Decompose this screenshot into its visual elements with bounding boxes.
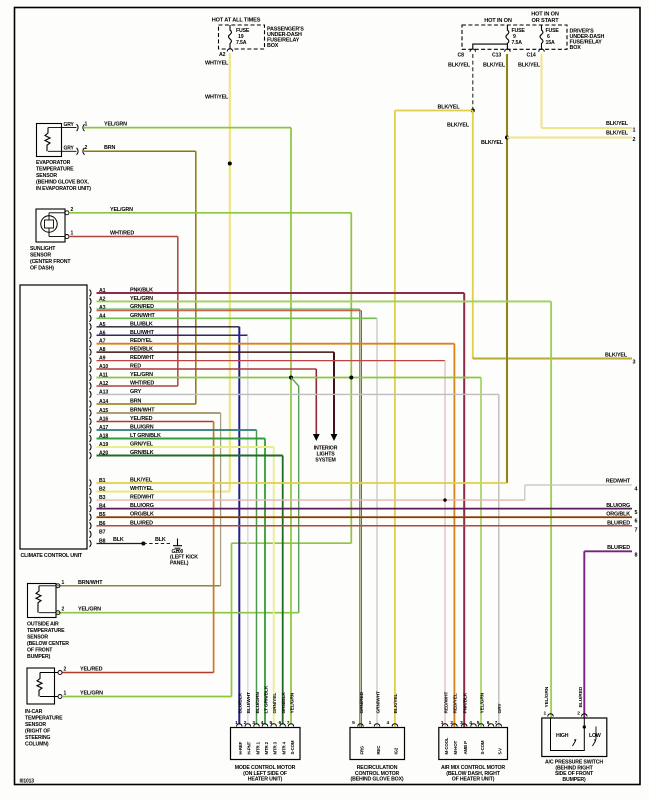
svg-text:MTR 3: MTR 3 (273, 741, 278, 754)
svg-text:PNK/BLK: PNK/BLK (130, 288, 153, 294)
svg-text:4: 4 (261, 720, 264, 726)
mode motor pin 6 GRN/BLK (279, 692, 288, 755)
unit pin B7 (90, 529, 106, 537)
unit pin A18 (90, 434, 109, 442)
unit pin B3 (90, 495, 106, 503)
svg-text:SENSOR: SENSOR (25, 722, 46, 728)
wire BLK/YEL from C8 junction left and down to recirculation motor (395, 105, 473, 728)
recirc motor pin 5 GRN/RED (352, 691, 365, 754)
wire B4 BLU/ORG to terminal 5 (97, 503, 638, 516)
svg-text:5-V: 5-V (498, 748, 503, 755)
svg-text:OUTSIDE AIR: OUTSIDE AIR (27, 622, 59, 628)
wire A7 RED/YEL to air mix motor pin 2 (97, 338, 455, 727)
svg-text:REC: REC (376, 745, 381, 755)
wire YEL/GRN evap pin1 down to mode motor S-COM with junction on A11 (84, 122, 291, 725)
mode motor pin 2 BLU/WHT (244, 692, 253, 755)
mode control motor connector (231, 728, 301, 783)
wire A20 GRN/BLK to mode motor pin 6 (97, 450, 283, 725)
evap sensor pin 1 connector (64, 122, 88, 132)
air mix motor pin 7 (495, 703, 504, 755)
svg-text:1: 1 (85, 122, 88, 128)
svg-text:H-REF: H-REF (238, 741, 243, 754)
unit pin A19 (90, 442, 109, 450)
climate control unit (20, 285, 87, 559)
svg-text:1: 1 (369, 720, 372, 726)
wire A2 YEL/GRN to A/C pressure switch pin 1 (97, 296, 552, 718)
wire A9 RED/WHT to air mix motor pin 1 (97, 355, 446, 727)
svg-text:MTR 1: MTR 1 (255, 741, 260, 754)
unit pin A16 (90, 417, 109, 425)
svg-text:RED/YEL: RED/YEL (130, 338, 153, 344)
svg-text:BLU/GRN: BLU/GRN (130, 425, 154, 431)
svg-text:5: 5 (477, 720, 480, 726)
wire A3 GRN/RED to recirculation motor (97, 304, 362, 727)
svg-text:WHT/RED: WHT/RED (110, 231, 134, 237)
svg-text:A12: A12 (99, 381, 108, 387)
svg-text:GRY: GRY (130, 389, 142, 395)
svg-text:BLK: BLK (155, 537, 166, 543)
svg-text:RED: RED (130, 364, 141, 370)
svg-text:(BEHIND GLOVE BOX,: (BEHIND GLOVE BOX, (36, 180, 89, 186)
svg-text:BLK/YEL: BLK/YEL (481, 140, 504, 146)
svg-text:IN-CAR: IN-CAR (25, 709, 43, 715)
svg-text:1: 1 (544, 711, 547, 717)
wire B5 ORG/BLK to terminal 6 (97, 512, 638, 525)
svg-text:B7: B7 (99, 529, 106, 535)
svg-text:BLK/YEL: BLK/YEL (438, 105, 461, 111)
svg-text:BUMPER): BUMPER) (562, 777, 586, 783)
svg-text:ORG/BLK: ORG/BLK (130, 512, 154, 518)
svg-text:WHT/YEL: WHT/YEL (205, 95, 229, 101)
air mix motor pin 4 (469, 720, 476, 727)
svg-text:BUMPER): BUMPER) (27, 654, 51, 660)
outside sensor pin 2 (56, 607, 101, 615)
wire YEL/GRN sunlight pin2 down to junction on A11 then to in-car sensor pin1 (63, 207, 351, 697)
passenger under-dash fuse/relay box (212, 18, 305, 50)
svg-text:BLK/YEL: BLK/YEL (448, 63, 471, 69)
unit pin A3 (90, 305, 106, 313)
svg-text:BRN: BRN (104, 145, 115, 151)
svg-text:BRN: BRN (130, 399, 141, 405)
svg-text:BRN/WHT: BRN/WHT (78, 580, 103, 586)
svg-text:3: 3 (460, 720, 463, 726)
svg-text:YEL/GRN: YEL/GRN (130, 372, 153, 378)
wire B3 RED/WHT to terminal 4 (97, 479, 638, 501)
svg-text:C14: C14 (527, 53, 536, 59)
svg-text:8: 8 (635, 553, 638, 559)
svg-text:YEL/GRN: YEL/GRN (544, 686, 550, 707)
evap sensor pin 2 connector (64, 145, 88, 155)
svg-text:BLK/YEL: BLK/YEL (130, 478, 153, 484)
unit pin A11 (90, 373, 109, 381)
svg-text:BLU/RED: BLU/RED (578, 686, 584, 707)
svg-text:C13: C13 (492, 53, 501, 59)
svg-text:2: 2 (85, 145, 88, 151)
outside air temperature sensor (27, 584, 69, 661)
pin C8 (458, 49, 476, 59)
svg-text:GRN/WHT: GRN/WHT (130, 313, 156, 319)
A/C pressure switch (542, 718, 607, 783)
svg-text:SYSTEM: SYSTEM (315, 458, 335, 464)
svg-text:6: 6 (487, 720, 490, 726)
svg-text:YEL/RED: YEL/RED (80, 667, 103, 673)
junction dot inside A/C switch (583, 725, 586, 728)
svg-text:HOT AT ALL TIMES: HOT AT ALL TIMES (212, 18, 261, 24)
wire B6 BLU/RED to terminal 7 (97, 520, 638, 533)
svg-text:3: 3 (252, 720, 255, 726)
wire B1 BLK/YEL from fuse 9 via C13 (97, 478, 508, 484)
svg-text:HEATER UNIT): HEATER UNIT) (248, 777, 283, 783)
unit pin B2 (90, 487, 106, 495)
svg-text:15A: 15A (546, 40, 555, 46)
wire A17 BLU/GRN to mode motor pin 3 (97, 425, 257, 725)
svg-text:S-COM: S-COM (480, 740, 485, 754)
svg-text:A2: A2 (219, 52, 226, 58)
svg-text:3: 3 (633, 360, 636, 366)
svg-text:RED/WHT: RED/WHT (130, 355, 155, 361)
wire A13 GRY to air mix motor pin 7 (97, 389, 499, 728)
svg-text:WHT/YEL: WHT/YEL (130, 486, 154, 492)
svg-text:1: 1 (64, 691, 67, 697)
svg-text:YEL/GRN: YEL/GRN (289, 692, 295, 713)
A/C switch pin 1 YEL/GRN (544, 686, 554, 716)
svg-text:7.5A: 7.5A (236, 40, 247, 46)
unit pin A1 (90, 288, 106, 296)
wire BLK/YEL dashed from pin C8 (472, 54, 474, 111)
mode motor pin 3 BLU/GRN (252, 692, 260, 755)
svg-text:BLU/WHT: BLU/WHT (246, 692, 252, 714)
jog from A11 junction to outside air sensor riser (291, 378, 299, 613)
wire WHT/RED sunlight pin1 to unit pin A12 (69, 231, 178, 386)
svg-text:GRN/WHT: GRN/WHT (375, 691, 381, 713)
svg-text:YEL/GRN: YEL/GRN (479, 692, 485, 713)
pin C13 (492, 49, 510, 59)
wire A5 BLU/BLK to mode motor pin 1 (97, 321, 240, 724)
wire A1 PNK/BLK to air mix motor pin 3 (97, 288, 465, 728)
svg-text:H-PNT: H-PNT (247, 741, 252, 754)
svg-text:BLU/BLK: BLU/BLK (238, 692, 244, 713)
svg-text:5: 5 (270, 720, 273, 726)
wire B8 BLK to ground G200 (97, 537, 144, 544)
svg-text:GRN/BLK: GRN/BLK (130, 450, 154, 456)
unit pin A7 (90, 339, 106, 347)
svg-text:GRN/BLK: GRN/BLK (281, 692, 287, 714)
svg-text:WHT/YEL: WHT/YEL (205, 61, 229, 67)
air mix motor pin 1 (441, 692, 450, 755)
wire A10 RED to interior lights system arrow (97, 364, 317, 434)
interior lights system label (314, 446, 338, 464)
wire BRN evap pin2 to unit pin A14 (84, 145, 196, 404)
svg-text:BOX: BOX (267, 43, 279, 49)
mode motor pin 1 BLU/BLK (235, 692, 244, 754)
unit pin B6 (90, 521, 106, 529)
svg-text:HIGH: HIGH (556, 733, 569, 739)
fuse 6 15A (540, 25, 559, 49)
svg-text:BLK/YEL: BLK/YEL (483, 63, 506, 69)
unit pin B5 (90, 512, 106, 520)
svg-text:YEL/GRN: YEL/GRN (110, 207, 133, 213)
A/C switch pin 2 BLU/RED (577, 686, 587, 716)
svg-text:S-COM: S-COM (290, 740, 295, 754)
wire A6 BLU/WHT to mode motor pin 2 (97, 330, 248, 725)
svg-text:2: 2 (577, 711, 580, 717)
svg-text:BLU/WHT: BLU/WHT (130, 330, 155, 336)
unit pin A20 (90, 451, 109, 459)
ground G200 (left kick panel) (170, 539, 198, 567)
unit pin A9 (90, 356, 106, 364)
svg-text:SENSOR: SENSOR (27, 635, 48, 641)
wire A19 GRN/YEL to mode motor pin 5 (97, 442, 274, 725)
recirculation control motor connector (350, 728, 405, 783)
wire A8 RED/BLK to interior lights system arrow (97, 347, 335, 434)
svg-text:BLK/YEL: BLK/YEL (447, 123, 470, 129)
wire BLK/YEL from C13 junction to terminal 2 (507, 131, 636, 144)
svg-text:SENSOR: SENSOR (30, 253, 51, 259)
air mix motor pin 6 (487, 720, 494, 727)
svg-text:M-COOL: M-COOL (444, 737, 449, 754)
svg-text:GRN/YEL: GRN/YEL (130, 442, 154, 448)
svg-text:MTR 2: MTR 2 (264, 741, 269, 754)
svg-text:5: 5 (352, 720, 355, 726)
svg-text:WHT/RED: WHT/RED (130, 380, 154, 386)
svg-text:2: 2 (244, 720, 247, 726)
svg-text:4: 4 (469, 720, 472, 726)
svg-text:(RIGHT OF: (RIGHT OF (25, 729, 50, 735)
svg-text:SENSOR: SENSOR (36, 173, 57, 179)
svg-text:1: 1 (62, 580, 65, 586)
svg-text:4: 4 (635, 487, 638, 493)
svg-text:AMB P: AMB P (463, 741, 468, 755)
svg-text:6: 6 (635, 519, 638, 525)
svg-text:BRN/WHT: BRN/WHT (130, 408, 155, 414)
svg-text:RED/WHT: RED/WHT (130, 495, 155, 501)
svg-text:7: 7 (287, 720, 290, 726)
air mix motor pin 3 (460, 692, 469, 754)
svg-text:A14: A14 (99, 399, 108, 405)
svg-text:GRY: GRY (497, 703, 503, 714)
mode motor pin 5 GRN/YEL (270, 693, 279, 755)
sunlight pin 2 (65, 207, 74, 215)
air mix motor pin 5 (477, 692, 486, 754)
splice dot on BLK wire (141, 542, 145, 546)
svg-text:GRY: GRY (64, 122, 75, 128)
wire WHT/YEL from fuse 19 pin A2 down to unit pin B2 (97, 53, 230, 492)
svg-text:6: 6 (279, 720, 282, 726)
outside sensor pin 1 (56, 580, 103, 588)
svg-text:GRN/YEL: GRN/YEL (272, 693, 278, 714)
svg-text:7: 7 (635, 527, 638, 533)
svg-text:1: 1 (441, 720, 444, 726)
svg-text:C8: C8 (458, 53, 465, 59)
unit pin A13 (90, 389, 109, 397)
unit pin A5 (90, 322, 106, 330)
wire YEL/GRN outside air sensor pin2 horizontal (57, 612, 299, 614)
svg-text:1: 1 (633, 128, 636, 134)
junction dot A11/sunlight riser (349, 376, 353, 380)
svg-text:B2: B2 (99, 487, 106, 493)
unit pin A17 (90, 425, 109, 433)
svg-text:RED/WHT: RED/WHT (443, 692, 449, 714)
svg-text:BLK/YEL: BLK/YEL (606, 131, 629, 137)
wire BLK/YEL from C8 junction down to terminal 3 (447, 111, 636, 366)
svg-text:(CENTER FRONT: (CENTER FRONT (30, 259, 71, 265)
svg-text:FRS: FRS (359, 746, 364, 755)
svg-text:YEL/GRN: YEL/GRN (130, 296, 153, 302)
svg-text:I01013: I01013 (20, 779, 35, 785)
junction dot C13 (505, 136, 509, 140)
svg-text:1: 1 (235, 720, 238, 726)
junction dot B3/A9 riser (443, 498, 446, 501)
svg-text:BLU/RED: BLU/RED (607, 545, 630, 551)
svg-text:CLIMATE CONTROL UNIT: CLIMATE CONTROL UNIT (21, 553, 83, 559)
svg-text:TEMPERATURE: TEMPERATURE (36, 167, 74, 173)
unit pin B1 (90, 478, 106, 486)
svg-text:COLUMN): COLUMN) (25, 742, 49, 748)
driver under-dash fuse/relay box (462, 12, 604, 52)
svg-text:LT GRN/BLK: LT GRN/BLK (130, 433, 161, 439)
unit pin A6 (90, 330, 106, 338)
splice dot on WHT/YEL wire (228, 162, 232, 166)
svg-text:IN EVAPORATOR UNIT): IN EVAPORATOR UNIT) (36, 186, 91, 192)
svg-text:ORG/BLK: ORG/BLK (606, 512, 630, 518)
svg-text:OF HEATER UNIT): OF HEATER UNIT) (452, 777, 495, 783)
svg-text:BLK/YEL: BLK/YEL (518, 63, 541, 69)
wire A11 YEL/GRN sensor common to air mix S-COM (97, 372, 482, 728)
wire A15 BRN/WHT to outside air temperature sensor pin 1 (57, 408, 221, 586)
svg-text:PANEL): PANEL) (170, 560, 189, 566)
bus wire from fuse 9 to pin C8 inside driver fuse box (473, 44, 508, 49)
svg-text:TEMPERATURE: TEMPERATURE (25, 716, 63, 722)
wire BLK/YEL from fuse 9 pin C13 down (vertical) (481, 54, 507, 483)
svg-text:YEL/GRN: YEL/GRN (78, 607, 101, 613)
mode motor pin 4 LT GRN/BLK (261, 685, 270, 754)
mode motor pin 7 YEL/GRN (287, 692, 296, 754)
svg-text:OR START: OR START (532, 18, 560, 24)
svg-text:RED/WHT: RED/WHT (606, 479, 631, 485)
svg-text:RED/BLK: RED/BLK (130, 347, 153, 353)
unit pin B4 (90, 504, 106, 512)
svg-text:HOT IN ON: HOT IN ON (531, 12, 559, 18)
pin C14 (527, 49, 545, 58)
svg-text:2: 2 (62, 607, 65, 613)
wire BLK/YEL from fuse 6 pin C14 to terminal 1 (518, 54, 636, 134)
in-car temperature sensor (25, 668, 63, 748)
svg-text:GRY: GRY (64, 146, 75, 152)
svg-text:GRN/RED: GRN/RED (359, 691, 365, 713)
in-car sensor pin 2 (58, 667, 103, 675)
air mix control motor connector (439, 728, 508, 783)
svg-text:4: 4 (387, 720, 390, 726)
svg-text:GRN/RED: GRN/RED (130, 304, 154, 310)
svg-text:7: 7 (495, 720, 498, 726)
svg-text:BLU/ORG: BLU/ORG (130, 503, 154, 509)
svg-text:BLK/YEL: BLK/YEL (606, 121, 629, 127)
svg-text:BOX: BOX (570, 45, 582, 51)
svg-text:HOT IN ON: HOT IN ON (484, 18, 512, 24)
svg-text:TEMPERATURE: TEMPERATURE (27, 628, 65, 634)
air mix motor pin 2 (450, 693, 459, 754)
wire A4 GRN/WHT to recirculation motor (97, 313, 378, 728)
svg-text:IG2: IG2 (394, 747, 399, 754)
unit pin A4 (90, 313, 106, 321)
svg-text:A3: A3 (99, 305, 106, 311)
unit pin A10 (90, 364, 109, 372)
svg-text:BLU/GRN: BLU/GRN (255, 692, 261, 714)
svg-text:5: 5 (635, 510, 638, 516)
wire BLU/RED terminal 8 to A/C pressure switch pin 2 (584, 545, 637, 718)
svg-text:1: 1 (71, 231, 74, 237)
recirc motor pin 1 GRN/WHT (369, 691, 382, 754)
fuse 19 7.5A (229, 25, 250, 49)
evaporator temperature sensor (36, 124, 91, 193)
wire A16 YEL/RED to in-car temperature sensor pin 2 (62, 416, 214, 673)
svg-text:LOW: LOW (589, 733, 601, 739)
unit pin A12 (90, 381, 109, 389)
junction dot A11/evaporator riser (289, 376, 293, 380)
fuse 9 7.5A (506, 25, 526, 49)
svg-text:BLU/ORG: BLU/ORG (606, 503, 630, 509)
svg-text:OF FRONT: OF FRONT (27, 648, 53, 654)
svg-text:MTR 4: MTR 4 (282, 741, 287, 754)
svg-text:BLU/BLK: BLU/BLK (130, 321, 153, 327)
junction dot C8 branch (471, 109, 475, 113)
unit pin A15 (90, 408, 109, 416)
svg-text:BLK/YEL: BLK/YEL (605, 353, 628, 359)
unit pin A2 (90, 296, 106, 304)
svg-text:STEERING: STEERING (25, 735, 50, 741)
in-car sensor pin 1 (58, 691, 103, 699)
svg-text:LT GRN/BLK: LT GRN/BLK (263, 685, 269, 713)
svg-text:2: 2 (71, 207, 74, 213)
dashed BLK wire to ground (143, 537, 172, 544)
svg-text:7.5A: 7.5A (512, 40, 523, 46)
svg-text:OF DASH): OF DASH) (30, 266, 54, 272)
svg-text:PNK/BLK: PNK/BLK (463, 692, 469, 713)
svg-text:M-HOT: M-HOT (453, 740, 458, 754)
pin A2 of passenger fuse box (219, 49, 233, 58)
svg-text:2: 2 (64, 667, 67, 673)
svg-text:RED/YEL: RED/YEL (453, 693, 459, 713)
svg-text:YEL/GRN: YEL/GRN (80, 691, 103, 697)
recirc motor pin 4 BLK/YEL (387, 693, 400, 754)
svg-text:SUNLIGHT: SUNLIGHT (30, 246, 56, 252)
unit pin A8 (90, 347, 106, 355)
svg-text:BLU/RED: BLU/RED (130, 520, 153, 526)
svg-text:BLU/RED: BLU/RED (607, 520, 630, 526)
unit pin A14 (90, 399, 109, 407)
svg-text:2: 2 (633, 137, 636, 143)
unit pin B8 (90, 539, 106, 547)
svg-text:EVAPORATOR: EVAPORATOR (36, 160, 71, 166)
svg-text:(BELOW CENTER: (BELOW CENTER (27, 641, 69, 647)
svg-text:(BEHIND GLOVE BOX): (BEHIND GLOVE BOX) (351, 777, 404, 783)
wire A18 LT GRN/BLK to mode motor pin 4 (97, 433, 266, 725)
svg-text:BLK: BLK (113, 537, 124, 543)
svg-text:2: 2 (450, 720, 453, 726)
svg-text:YEL/RED: YEL/RED (130, 416, 153, 422)
sunlight sensor (30, 209, 71, 272)
sunlight pin 1 (65, 231, 74, 239)
svg-text:YEL/GRN: YEL/GRN (104, 122, 127, 128)
svg-text:BLK/YEL: BLK/YEL (393, 693, 399, 713)
